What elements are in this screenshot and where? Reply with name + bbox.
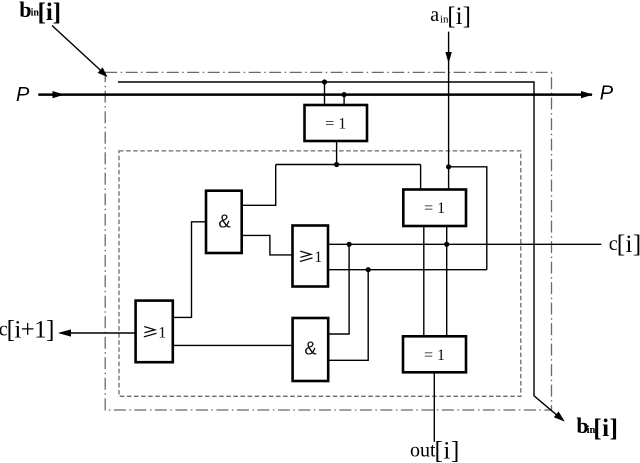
xor gate XOR2 (=1) right	[403, 190, 466, 227]
svg-text:&: &	[218, 210, 231, 231]
label c[i]	[609, 231, 640, 258]
wire P bus horizontal	[38, 93, 592, 96]
label a_in[i] top	[430, 3, 471, 30]
svg-text:[i]: [i]	[593, 415, 618, 442]
arrowhead c[i+1]	[58, 329, 71, 336]
outer dash-dot boundary box	[105, 72, 551, 410]
wire b_in horizontal line with right-side vertical drop	[118, 82, 562, 420]
inner dashed boundary box	[119, 151, 521, 396]
wire XOR3 output down to out[i]	[433, 372, 435, 442]
or gate OR2 (>=1) lower left	[136, 301, 173, 363]
wire tree right branch down to XOR2	[420, 165, 422, 190]
wire XOR1 output down to tree	[336, 141, 338, 165]
wire stub P line to XOR1 top	[343, 95, 345, 105]
junction dot on P line	[342, 92, 347, 97]
svg-text:[i]: [i]	[447, 3, 471, 30]
junction dot on c line right	[444, 242, 449, 247]
junction dot on c line left	[347, 242, 352, 247]
wire stub b line to XOR1 top	[324, 82, 326, 105]
arrowhead on P line left	[53, 91, 65, 98]
svg-text:&: &	[304, 337, 317, 358]
xor gate XOR1 (=1) top	[305, 105, 368, 141]
wire from c line down to AND2 right	[328, 244, 349, 334]
arrowhead b_in output bottom-right	[554, 412, 565, 422]
svg-text:[i+1]: [i+1]	[7, 316, 54, 343]
svg-text:out: out	[410, 440, 436, 462]
wire AND1 left to OR2 right	[173, 222, 206, 318]
and gate AND2 (&) lower	[293, 318, 329, 381]
svg-text:[i]: [i]	[617, 231, 640, 258]
svg-text:P: P	[600, 83, 614, 105]
wire a_in vertical line	[448, 32, 450, 190]
label b_in[i] bottom-right	[576, 413, 618, 442]
label b_in[i] top-left	[19, 0, 61, 26]
svg-text:[i]: [i]	[38, 0, 62, 26]
arrowhead on a_in line	[445, 52, 451, 64]
arrowhead on P line right	[581, 91, 593, 98]
svg-text:P: P	[16, 84, 30, 106]
and gate AND1 (&) upper	[206, 191, 242, 253]
svg-text:= 1: = 1	[424, 347, 445, 364]
junction dot on b line	[322, 79, 327, 84]
wire XOR2 bottom right stub through c dot to XOR3	[446, 226, 448, 336]
xor gate XOR3 (=1) bottom	[403, 336, 466, 372]
wire from dot down to AND2 right lower	[328, 270, 368, 361]
junction dot on OR1 lower wire	[366, 267, 371, 272]
wire c[i] line from OR1	[328, 243, 601, 245]
wire OR2 output left to c[i+1]	[60, 332, 136, 334]
arrow from b_in[i] label to box corner	[52, 26, 108, 78]
svg-text:a: a	[430, 4, 439, 26]
wire OR1 lower output to a branch	[328, 269, 487, 271]
svg-text:= 1: = 1	[325, 115, 346, 132]
wire tree left branch down to AND1	[242, 165, 276, 206]
label c[i+1]	[0, 316, 54, 343]
wire tree horizontal	[276, 164, 421, 166]
junction dot on a line	[446, 164, 451, 169]
or gate OR1 (>=1) middle	[293, 226, 329, 287]
svg-text:1: 1	[314, 249, 322, 266]
wire AND1 right lower to OR1 left	[242, 235, 293, 255]
junction dot on tree line	[334, 162, 339, 167]
wire a branch right and down	[449, 167, 487, 270]
svg-text:[i]: [i]	[435, 438, 460, 463]
svg-text:= 1: = 1	[424, 200, 445, 217]
svg-text:1: 1	[158, 324, 166, 341]
wire OR2 right lower to AND2 left	[173, 344, 293, 346]
label out[i]	[410, 438, 460, 463]
wire XOR2 bottom left stub to XOR3	[423, 226, 425, 336]
